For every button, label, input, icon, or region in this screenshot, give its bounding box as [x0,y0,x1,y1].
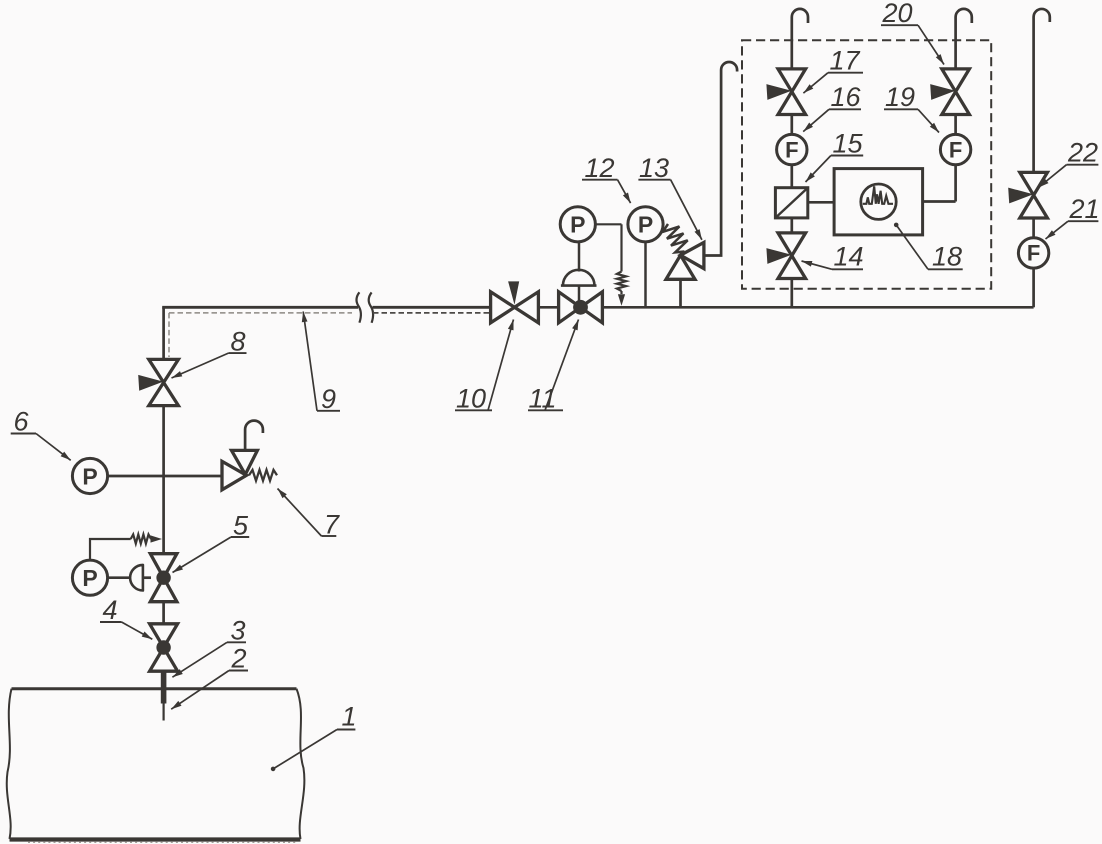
svg-text:8: 8 [231,327,246,357]
svg-text:13: 13 [639,153,669,183]
svg-text:F: F [949,137,962,162]
svg-text:14: 14 [834,242,864,272]
svg-text:16: 16 [831,82,862,112]
svg-text:15: 15 [833,129,864,159]
svg-text:3: 3 [231,616,246,646]
svg-text:1: 1 [342,702,357,732]
svg-text:9: 9 [321,384,336,414]
svg-text:4: 4 [103,595,118,625]
svg-text:P: P [82,565,97,591]
svg-text:P: P [82,463,97,489]
svg-text:21: 21 [1069,194,1100,224]
svg-text:18: 18 [932,242,962,272]
svg-text:F: F [785,137,798,162]
svg-text:19: 19 [885,82,915,112]
svg-text:5: 5 [233,511,249,541]
svg-text:P: P [570,212,585,238]
svg-text:2: 2 [231,644,247,674]
svg-text:7: 7 [324,510,340,540]
svg-text:10: 10 [456,384,486,414]
svg-text:22: 22 [1067,138,1098,168]
svg-text:F: F [1027,241,1040,266]
svg-text:6: 6 [14,407,30,437]
svg-text:P: P [638,212,653,238]
svg-text:20: 20 [882,0,913,28]
svg-text:17: 17 [830,46,861,76]
svg-text:12: 12 [585,153,615,183]
